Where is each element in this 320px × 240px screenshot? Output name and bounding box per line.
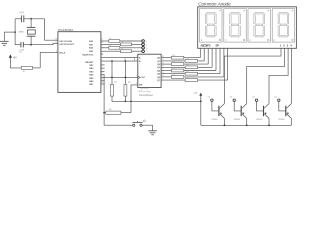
wire segment 5 <box>219 48 221 73</box>
svg-text:7: 7 <box>136 56 137 58</box>
svg-text:CLK: CLK <box>141 77 146 79</box>
svg-text:+5V: +5V <box>13 57 18 59</box>
svg-text:3: 3 <box>146 48 147 50</box>
digit 1 segment g <box>207 24 215 26</box>
node <box>125 77 127 79</box>
svg-text:RA1: RA1 <box>89 43 94 46</box>
pin stub RB <box>101 80 105 82</box>
svg-text:10k: 10k <box>128 82 131 84</box>
wire <box>184 70 216 72</box>
wire <box>200 101 202 125</box>
digit 1 segment b <box>215 14 216 24</box>
wire <box>10 62 21 68</box>
digit 1 segment c <box>215 26 216 36</box>
digit 4 decimal point <box>292 39 294 41</box>
digit 4 segment a <box>279 13 288 14</box>
svg-text:Q5: Q5 <box>157 74 161 76</box>
wire <box>132 50 142 52</box>
svg-text:330: 330 <box>186 64 189 66</box>
wire <box>124 61 126 84</box>
svg-text:3: 3 <box>287 45 289 48</box>
svg-text:RA0: RA0 <box>89 40 94 43</box>
wire <box>111 61 113 84</box>
resistor R11 10k pullup <box>124 85 127 97</box>
svg-text:1: 1 <box>101 46 102 48</box>
node <box>200 100 202 102</box>
digit 3 segment f <box>254 14 255 24</box>
svg-text:330: 330 <box>172 61 175 63</box>
pin stub RB <box>101 83 105 85</box>
wire <box>198 66 213 68</box>
svg-text:Q2: Q2 <box>157 64 161 66</box>
wire segment 0 <box>199 48 201 57</box>
svg-text:12: 12 <box>101 79 103 81</box>
wire digit 3 route <box>269 48 288 103</box>
resistor R10 10k pullup <box>111 85 114 97</box>
wire RA3 <box>101 50 121 52</box>
resistor R17 330 <box>171 69 184 72</box>
svg-text:Q7: Q7 <box>157 80 161 82</box>
svg-text:2N3906: 2N3906 <box>211 119 217 121</box>
wire <box>198 79 228 81</box>
wire segment 3 <box>211 48 213 67</box>
svg-text:OSC1/CLKIN: OSC1/CLKIN <box>59 41 72 43</box>
resistor R2 1k <box>109 40 120 43</box>
svg-text:Q1: Q1 <box>208 96 210 98</box>
digit 2 segment f <box>230 14 231 24</box>
svg-text:330: 330 <box>172 68 175 70</box>
wire segment 6 <box>223 48 225 77</box>
pin stub RB <box>101 67 105 69</box>
svg-text:Q4: Q4 <box>275 96 277 98</box>
svg-text:2N3906: 2N3906 <box>256 119 262 121</box>
power +5V <box>9 57 11 61</box>
digit 3 segment a <box>255 13 264 14</box>
wire Q4 <box>161 70 171 72</box>
svg-text:RB6: RB6 <box>89 81 94 83</box>
svg-text:ABCDEFG: ABCDEFG <box>200 45 210 48</box>
node <box>268 124 270 126</box>
svg-text:PIC16F84A: PIC16F84A <box>58 28 73 32</box>
node terminal 2 <box>142 43 145 46</box>
digit 3 segment b <box>263 14 264 24</box>
svg-text:1k: 1k <box>121 48 123 50</box>
wire <box>15 18 21 20</box>
wire <box>198 73 220 75</box>
svg-text:Q2: Q2 <box>230 96 232 98</box>
svg-text:RB5: RB5 <box>89 78 94 80</box>
svg-text:1: 1 <box>146 41 147 43</box>
capacitor C2 22pF <box>20 42 22 47</box>
svg-text:MR: MR <box>139 85 143 87</box>
svg-text:BCD to 7seg: BCD to 7seg <box>139 90 152 93</box>
resistor R5 1k <box>121 50 132 53</box>
wire emitter rail <box>201 124 291 126</box>
svg-text:74LS 247: 74LS 247 <box>140 88 150 90</box>
svg-text:RB0/INT: RB0/INT <box>85 62 94 64</box>
svg-text:1: 1 <box>280 45 282 48</box>
svg-text:330: 330 <box>186 77 189 79</box>
svg-text:330: 330 <box>186 71 189 73</box>
pin stub RB <box>101 70 105 72</box>
wire <box>24 18 45 20</box>
resistor R13 330 <box>171 56 184 59</box>
svg-text:RB2: RB2 <box>89 68 94 70</box>
svg-text:Q0: Q0 <box>157 58 161 60</box>
wire Q2 <box>161 63 171 65</box>
digit 3 decimal point <box>267 39 269 41</box>
wire Q1 <box>161 60 185 62</box>
digit 2 segment e <box>230 26 231 36</box>
svg-text:16: 16 <box>55 39 57 41</box>
wire <box>30 19 32 28</box>
node <box>224 124 226 126</box>
digit 2 segment d <box>231 36 240 37</box>
svg-text:8: 8 <box>101 66 102 68</box>
svg-text:7: 7 <box>101 63 102 65</box>
svg-text:RB7: RB7 <box>89 84 94 86</box>
digit 3 segment d <box>255 36 264 37</box>
digit 1 decimal point <box>219 39 221 41</box>
digit 2 segment c <box>239 26 240 36</box>
node B branch 2 <box>125 60 127 62</box>
resistor R3 1k <box>121 43 132 46</box>
digit 2 decimal point <box>243 39 245 41</box>
svg-text:4: 4 <box>290 45 292 48</box>
resistor R15 330 <box>171 63 184 66</box>
pin stub RA4 <box>101 53 103 55</box>
node OSC junction left <box>14 31 16 33</box>
svg-text:RA4/T0CKI: RA4/T0CKI <box>82 54 93 57</box>
svg-text:Q4: Q4 <box>157 69 161 72</box>
digit 1 segment f <box>206 14 207 24</box>
wire digit 1 route <box>224 48 281 103</box>
digit 1 segment d <box>206 36 215 37</box>
wire segment 2 <box>207 48 209 64</box>
wire Q6 <box>161 76 171 78</box>
svg-text:2: 2 <box>101 49 102 51</box>
resistor R1 1k <box>21 66 32 69</box>
wire +5V rail to pullups <box>112 96 201 101</box>
svg-text:2: 2 <box>146 44 147 46</box>
digit 4 segment b <box>287 14 288 24</box>
node <box>111 77 113 79</box>
svg-text:10k: 10k <box>114 82 117 84</box>
digit 2 segment b <box>239 14 240 24</box>
wire <box>132 43 142 45</box>
wire segment 4 <box>215 48 217 70</box>
wire RB5 to CLK <box>101 76 138 78</box>
svg-text:2: 2 <box>283 45 285 48</box>
svg-text:A: A <box>139 57 141 60</box>
node crystal top <box>30 18 32 20</box>
transistor Q2 2N3906 <box>233 99 235 101</box>
wire RA1 <box>101 43 121 45</box>
digit 3 segment c <box>263 26 264 36</box>
node <box>130 100 132 102</box>
svg-text:2N3906: 2N3906 <box>278 119 284 121</box>
switch button <box>133 124 135 126</box>
power +5V transistors <box>200 95 202 101</box>
resistor R4 1k <box>109 46 120 49</box>
svg-text:+5V: +5V <box>193 92 197 94</box>
wire segment 1 <box>203 48 205 61</box>
svg-text:DP: DP <box>216 45 220 48</box>
wire <box>124 96 126 101</box>
ground <box>4 31 15 33</box>
svg-text:4: 4 <box>56 51 57 53</box>
svg-text:1k: 1k <box>109 45 111 47</box>
transistor Q3 2N3906 <box>255 99 257 101</box>
resistor R20 330 <box>185 79 198 82</box>
svg-text:18: 18 <box>101 42 103 44</box>
svg-text:Demultiplexer: Demultiplexer <box>139 94 153 97</box>
transistor Q1 2N3906 <box>211 99 213 101</box>
wire RA2 <box>101 47 109 49</box>
wire Q3 <box>161 66 185 68</box>
node crystal bottom <box>30 44 32 46</box>
wire <box>120 40 142 42</box>
node <box>246 124 248 126</box>
svg-text:Q3: Q3 <box>157 67 161 69</box>
digit 1 segment a <box>206 13 215 14</box>
wire Q0 <box>161 57 171 59</box>
wire <box>184 63 208 65</box>
svg-text:B: B <box>139 61 141 63</box>
svg-text:RB3: RB3 <box>89 71 94 73</box>
svg-text:OSC2/CLKOUT: OSC2/CLKOUT <box>59 44 75 46</box>
svg-text:15: 15 <box>55 42 57 44</box>
digit 4 segment e <box>278 26 279 36</box>
wire <box>198 60 205 62</box>
resistor R19 330 <box>171 76 184 79</box>
resistor R14 330 <box>185 60 198 63</box>
resistor R18 330 <box>185 72 198 75</box>
display digit 4 box <box>272 9 294 43</box>
wire segment 7 <box>227 48 229 80</box>
wire MR <box>131 85 138 113</box>
svg-text:Common Anode: Common Anode <box>198 2 231 7</box>
svg-text:13: 13 <box>101 82 103 84</box>
wire <box>15 44 21 46</box>
resistor R12 10k <box>106 111 121 114</box>
svg-text:4: 4 <box>146 51 147 53</box>
transistor Q4 2N3906 <box>278 99 280 101</box>
node RB0 branch <box>111 60 113 62</box>
op-amp U1 PIC16F84A microcontroller <box>58 32 101 93</box>
svg-text:RA2: RA2 <box>89 47 94 50</box>
wire RB5 to button <box>101 74 133 125</box>
capacitor C1 22pF <box>20 15 22 22</box>
digit 2 segment g <box>231 24 239 26</box>
wire <box>104 112 106 114</box>
wire <box>120 47 142 49</box>
digit 2 segment a <box>231 13 240 14</box>
wire digit 2 route <box>247 48 285 103</box>
node terminal 3 <box>142 47 145 50</box>
display digit 1 box <box>200 9 222 43</box>
node terminal 1 <box>142 40 145 43</box>
wire <box>142 124 153 126</box>
svg-text:2: 2 <box>136 76 137 78</box>
digit 1 segment e <box>206 26 207 36</box>
svg-text:330: 330 <box>172 74 175 76</box>
wire <box>184 57 201 59</box>
svg-text:9: 9 <box>101 69 102 71</box>
svg-text:4MHz: 4MHz <box>18 31 24 33</box>
digit 3 segment e <box>254 26 255 36</box>
op-amp U2 74LS247 decoder <box>138 54 161 87</box>
node <box>125 100 127 102</box>
wire OSC2 <box>31 43 58 44</box>
svg-text:RB4: RB4 <box>89 74 94 77</box>
digit 4 segment d <box>279 36 288 37</box>
svg-text:17: 17 <box>101 39 103 41</box>
svg-text:Q1: Q1 <box>157 61 161 63</box>
svg-text:330: 330 <box>186 58 189 60</box>
svg-text:10k: 10k <box>109 109 112 111</box>
svg-text:MCLR: MCLR <box>59 52 66 54</box>
digit 4 segment c <box>287 26 288 36</box>
wire <box>184 76 224 78</box>
display digit 3 box <box>248 9 270 43</box>
crystal X1 4MHz <box>27 26 36 28</box>
svg-text:1k: 1k <box>109 38 111 40</box>
svg-text:1k: 1k <box>23 71 25 73</box>
wire digit 4 route <box>290 48 292 103</box>
svg-text:330: 330 <box>172 55 175 57</box>
svg-text:1k: 1k <box>121 42 123 44</box>
svg-text:2N3906: 2N3906 <box>234 119 240 121</box>
wire Q5 <box>161 73 185 75</box>
svg-text:1: 1 <box>136 59 137 61</box>
display digit 2 box <box>224 9 246 43</box>
wire <box>14 19 16 45</box>
resistor R16 330 <box>185 66 198 69</box>
digit 3 segment g <box>255 24 263 26</box>
pin stub RB <box>101 64 105 66</box>
wire Q7 <box>161 79 185 81</box>
wire RB0 to B <box>101 60 138 62</box>
wire OSC1 <box>45 19 58 40</box>
digit 4 segment g <box>280 24 288 26</box>
node terminal 4 <box>142 50 145 53</box>
svg-text:RA3: RA3 <box>89 50 94 53</box>
svg-text:R1: R1 <box>19 51 22 53</box>
wire <box>30 36 32 45</box>
wire MCLR <box>33 67 41 69</box>
svg-text:3: 3 <box>136 83 137 85</box>
svg-text:22pF: 22pF <box>19 12 25 14</box>
wire to A <box>101 57 138 59</box>
svg-text:Q6: Q6 <box>157 77 161 79</box>
ground <box>148 130 157 132</box>
svg-text:RB1: RB1 <box>89 65 94 67</box>
digit 4 segment f <box>278 14 279 24</box>
component body on A/B wires <box>125 58 135 62</box>
wire RA0 <box>101 40 109 42</box>
node <box>103 112 105 114</box>
svg-text:Q3: Q3 <box>252 96 254 98</box>
